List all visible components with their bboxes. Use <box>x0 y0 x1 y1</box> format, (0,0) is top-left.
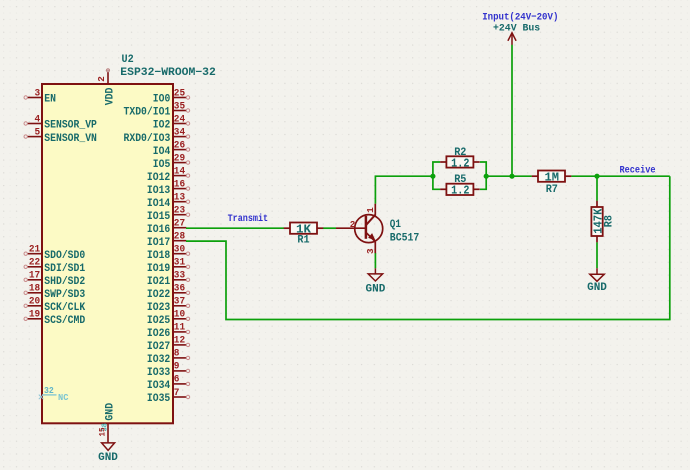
U2 pin 35 TXD0/IO1 (right) <box>124 101 190 118</box>
svg-text:IO15: IO15 <box>147 211 171 223</box>
svg-text:U2: U2 <box>122 54 134 66</box>
U2 pin 34 RXD0/IO3 (right) <box>124 127 190 144</box>
wire R1 to Q1 base <box>323 227 336 229</box>
svg-text:SENSOR_VN: SENSOR_VN <box>44 133 97 145</box>
wire R2 branch right <box>480 162 486 176</box>
U2 pin 5 SENSOR_VN (left) <box>24 127 97 144</box>
svg-text:EN: EN <box>44 94 56 106</box>
svg-text:17: 17 <box>29 271 40 282</box>
svg-text:TXD0/IO1: TXD0/IO1 <box>124 107 171 119</box>
resistor R8 147K <box>591 201 615 243</box>
svg-text:IO22: IO22 <box>147 289 170 301</box>
U2 pin 10 IO25 (right) <box>147 310 190 327</box>
svg-text:2: 2 <box>350 219 356 230</box>
svg-text:8: 8 <box>174 349 180 360</box>
svg-text:IO33: IO33 <box>147 367 171 379</box>
junction at R2/R5 left <box>430 174 435 179</box>
svg-text:IO35: IO35 <box>147 393 171 405</box>
svg-text:GND: GND <box>366 284 386 296</box>
wire Q1 emitter to ground <box>374 253 376 268</box>
U2 pin 7 IO35 (right) <box>147 388 190 405</box>
U2 pin 17 SHD/SD2 (left) <box>24 271 85 288</box>
U2 pin 25 IO0 (right) <box>153 88 190 105</box>
svg-text:IO26: IO26 <box>147 328 171 340</box>
svg-text:SENSOR_VP: SENSOR_VP <box>44 120 97 132</box>
svg-text:24: 24 <box>174 114 185 125</box>
svg-text:7: 7 <box>174 388 180 399</box>
wire R8 bottom to ground <box>596 242 598 268</box>
svg-text:R5: R5 <box>454 174 466 186</box>
svg-text:21: 21 <box>29 245 40 256</box>
svg-text:IO12: IO12 <box>147 172 170 184</box>
svg-text:4: 4 <box>35 114 41 125</box>
svg-text:1M: 1M <box>545 170 560 184</box>
U2 pin 23 IO15 (right) <box>147 205 190 222</box>
U2 pin 12 IO27 (right) <box>147 336 190 353</box>
svg-text:IO13: IO13 <box>147 185 171 197</box>
U2 pin 30 IO18 (right) <box>147 245 190 262</box>
U2 pin 4 SENSOR_VP (left) <box>24 114 97 131</box>
resistor R5 1.2 <box>440 174 480 198</box>
svg-text:37: 37 <box>174 297 185 308</box>
svg-text:30: 30 <box>174 245 185 256</box>
svg-text:R1: R1 <box>297 235 309 247</box>
resistor R7 1M <box>532 170 572 196</box>
svg-text:16: 16 <box>174 179 185 190</box>
svg-text:IO2: IO2 <box>153 120 171 132</box>
ground symbol under Q1 <box>366 268 386 295</box>
U2 pin 29 IO5 (right) <box>153 153 190 170</box>
wire R5 branch left <box>433 176 440 189</box>
svg-text:IO14: IO14 <box>147 198 171 210</box>
U2 pin 22 SDI/SD1 (left) <box>24 258 85 275</box>
svg-text:12: 12 <box>174 336 185 347</box>
U2 pin 37 IO23 (right) <box>147 297 190 314</box>
svg-text:IO18: IO18 <box>147 250 171 262</box>
U2 pin 18 SWP/SD3 (left) <box>24 284 85 301</box>
svg-text:IO5: IO5 <box>153 159 171 171</box>
power symbol +24V bus arrow <box>508 33 516 45</box>
svg-text:35: 35 <box>174 101 185 112</box>
svg-text:IO27: IO27 <box>147 341 170 353</box>
svg-text:IO32: IO32 <box>147 354 170 366</box>
wire rail R2/R5 to R7 <box>486 175 532 177</box>
svg-text:IO16: IO16 <box>147 224 171 236</box>
svg-text:IO17: IO17 <box>147 237 170 249</box>
svg-text:19: 19 <box>29 310 40 321</box>
svg-text:14: 14 <box>174 166 185 177</box>
svg-text:Transmit: Transmit <box>228 213 269 224</box>
U2 pin 28 IO17 (right) <box>147 232 186 249</box>
wire +24V bus vertical <box>511 45 513 177</box>
svg-text:BC517: BC517 <box>390 232 420 244</box>
wire R2 branch left <box>433 162 440 176</box>
svg-text:VDD: VDD <box>105 87 117 105</box>
svg-text:3: 3 <box>365 248 376 254</box>
svg-text:29: 29 <box>174 153 185 164</box>
U2 pin 24 IO2 (right) <box>153 114 190 131</box>
svg-text:IO34: IO34 <box>147 380 171 392</box>
svg-text:33: 33 <box>174 271 185 282</box>
svg-text:R8: R8 <box>604 215 616 227</box>
U2 pin 31 IO19 (right) <box>147 258 190 275</box>
svg-text:SDI/SD1: SDI/SD1 <box>44 263 85 275</box>
U2 pin 32 NC (not connected) <box>39 385 69 403</box>
svg-text:SCS/CMD: SCS/CMD <box>44 315 85 327</box>
svg-text:GND: GND <box>587 282 607 294</box>
svg-text:Receive: Receive <box>620 164 656 175</box>
resistor R2 1.2 <box>440 147 480 170</box>
U2 pin 6 IO34 (right) <box>147 375 190 392</box>
junction at +24V bus <box>509 174 514 179</box>
svg-text:27: 27 <box>174 219 185 230</box>
wire R5 branch right <box>480 176 486 189</box>
U2 pin 2 VDD (top) <box>96 69 117 106</box>
svg-text:22: 22 <box>29 258 40 269</box>
U2 pin 27 IO16 (right) <box>147 219 186 236</box>
U2 pin 26 IO4 (right) <box>153 140 190 157</box>
svg-text:GND: GND <box>98 452 118 464</box>
svg-text:25: 25 <box>174 88 185 99</box>
svg-text:2: 2 <box>96 76 107 82</box>
U2 pin 11 IO26 (right) <box>147 323 190 340</box>
resistor R1 1K <box>284 223 324 247</box>
ground symbol under U2 <box>98 443 118 464</box>
svg-text:23: 23 <box>174 205 185 216</box>
U2 pin 21 SDO/SD0 (left) <box>24 245 85 262</box>
wire R8 top lead <box>596 176 598 201</box>
U2 pin 36 IO22 (right) <box>147 284 190 301</box>
wire Transmit net: IO16 to R1 <box>186 227 284 229</box>
svg-text:IO0: IO0 <box>153 94 171 106</box>
svg-text:R7: R7 <box>546 184 558 196</box>
wire Q1 collector up and right to R2/R5 <box>375 176 433 204</box>
U2 pin 33 IO21 (right) <box>147 271 190 288</box>
svg-text:IO25: IO25 <box>147 315 171 327</box>
svg-text:IO21: IO21 <box>147 276 171 288</box>
wire IO17 loop: down, right, up to Receive <box>186 176 670 319</box>
U2 pin 8 IO32 (right) <box>147 349 190 366</box>
svg-text:11: 11 <box>174 323 185 334</box>
svg-text:GND: GND <box>105 403 117 421</box>
svg-text:31: 31 <box>174 258 185 269</box>
transistor Q1 BC517 <box>336 204 419 254</box>
U2 pin 15 GND (bottom) <box>99 403 117 443</box>
IC U2 body <box>42 84 173 423</box>
U2 pin 19 SCS/CMD (left) <box>24 310 85 327</box>
svg-text:18: 18 <box>29 284 40 295</box>
svg-text:ESP32−WROOM−32: ESP32−WROOM−32 <box>120 67 216 79</box>
junction at R8 top <box>594 174 599 179</box>
svg-text:5: 5 <box>35 127 41 138</box>
svg-text:IO19: IO19 <box>147 263 170 275</box>
svg-text:IO4: IO4 <box>153 146 171 158</box>
U2 pin 14 IO12 (right) <box>147 166 190 183</box>
svg-text:28: 28 <box>174 232 185 243</box>
svg-text:10: 10 <box>174 310 185 321</box>
U2 pin 9 IO33 (right) <box>147 362 190 379</box>
svg-text:SDO/SD0: SDO/SD0 <box>44 250 85 262</box>
svg-text:3: 3 <box>35 88 41 99</box>
U2 pin 13 IO14 (right) <box>147 192 190 209</box>
U2 pin 20 SCK/CLK (left) <box>24 297 85 314</box>
junction at R2/R5 right <box>484 174 489 179</box>
svg-text:SHD/SD2: SHD/SD2 <box>44 276 85 288</box>
svg-text:RXD0/IO3: RXD0/IO3 <box>124 133 171 145</box>
svg-text:IO23: IO23 <box>147 302 171 314</box>
wire R7 to Receive corner <box>571 175 670 177</box>
svg-text:34: 34 <box>174 127 185 138</box>
svg-text:26: 26 <box>174 140 185 151</box>
svg-text:20: 20 <box>29 297 40 308</box>
svg-text:36: 36 <box>174 284 185 295</box>
svg-text:9: 9 <box>174 362 180 373</box>
svg-text:13: 13 <box>174 192 185 203</box>
svg-text:15: 15 <box>99 427 108 436</box>
svg-text:NC: NC <box>58 392 69 403</box>
ground symbol under R8 <box>587 268 607 294</box>
svg-text:R2: R2 <box>454 147 466 159</box>
U2 pin 3 EN (left) <box>24 88 56 105</box>
svg-text:SCK/CLK: SCK/CLK <box>44 302 85 314</box>
U2 pin 16 IO13 (right) <box>147 179 190 196</box>
svg-text:SWP/SD3: SWP/SD3 <box>44 289 85 301</box>
svg-text:Q1: Q1 <box>390 219 401 231</box>
svg-text:1: 1 <box>365 207 376 213</box>
svg-text:6: 6 <box>174 375 180 386</box>
svg-text:+24V Bus: +24V Bus <box>493 23 540 35</box>
